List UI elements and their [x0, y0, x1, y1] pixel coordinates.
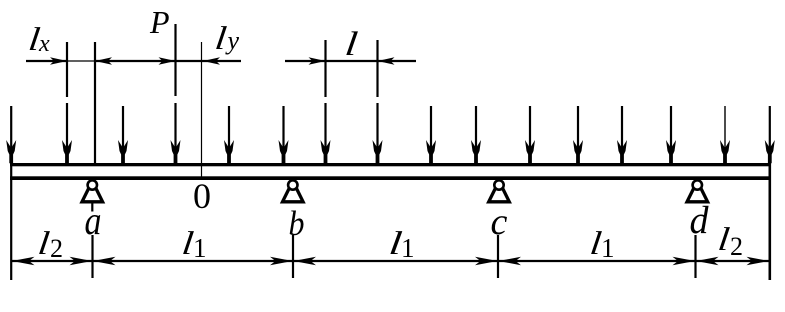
bottom tick d: [694, 235, 696, 278]
support c hinge circle: [494, 180, 503, 189]
load arrow 7: [324, 103, 326, 149]
beam left end extension line: [10, 163, 12, 280]
load arrow 3: [122, 106, 124, 149]
support a triangle: [82, 181, 103, 202]
svg-text:b: b: [289, 204, 305, 243]
load arrow 6: [282, 106, 284, 149]
load arrow 9: [430, 106, 432, 149]
load arrow 10: [475, 106, 477, 149]
dim line ly right segment with left-pointing arrow: [203, 60, 241, 62]
support a stem: [91, 203, 93, 211]
bottom tick c: [497, 235, 499, 278]
support b hinge circle: [288, 180, 297, 189]
load arrow 8: [376, 103, 378, 149]
l2-right arrowhead at tick d: [696, 257, 719, 265]
svg-text:1: 1: [193, 233, 207, 263]
svg-text:l: l: [343, 26, 360, 63]
beam top flange: [10, 163, 770, 166]
l1-ab arrowhead at tick b: [270, 257, 293, 265]
beam right end extension line: [768, 163, 771, 280]
section 0 axis (thin line): [201, 42, 203, 178]
svg-text:l: l: [213, 20, 229, 57]
l2-right arrowhead at beam right end: [747, 257, 770, 265]
load arrow 4: [174, 103, 176, 149]
l2-left arrowhead at tick a: [70, 257, 93, 265]
extension line of support a above beam: [94, 42, 96, 163]
bottom tick b: [292, 235, 294, 278]
dim line l (continuous through both ticks): [285, 60, 416, 62]
connecting line between P tick and 0 line: [176, 60, 204, 62]
tick l spacing right: [376, 40, 378, 97]
load arrow 12: [577, 106, 579, 149]
load line P: [174, 24, 176, 96]
svg-text:2: 2: [50, 234, 63, 263]
support d triangle: [687, 181, 708, 202]
bottom dimension line: [11, 260, 770, 262]
svg-text:0: 0: [193, 176, 211, 216]
l1-ab arrowhead at tick a: [93, 257, 116, 265]
load arrow 1: [10, 106, 12, 149]
l2-left arrowhead at beam left end: [12, 257, 35, 265]
svg-text:y: y: [225, 26, 240, 55]
support a hinge circle: [88, 180, 97, 189]
svg-text:P: P: [149, 4, 170, 40]
load arrow 5: [228, 106, 230, 149]
support b triangle: [283, 181, 304, 202]
svg-text:2: 2: [730, 232, 743, 261]
support c triangle: [489, 181, 510, 202]
l1-cd arrowhead at tick d: [673, 257, 696, 265]
dim segment between support-a line and P line, arrows outward: [95, 60, 176, 62]
load arrow 2: [66, 103, 68, 149]
load arrow 16: [769, 106, 771, 149]
svg-text:d: d: [690, 199, 709, 242]
svg-text:1: 1: [601, 233, 615, 263]
load arrow 14: [670, 106, 672, 149]
tick l spacing left: [324, 40, 326, 97]
l1-cd arrowhead at tick c: [499, 257, 522, 265]
l1-bc arrowhead at tick b: [294, 257, 317, 265]
support d hinge circle: [693, 180, 702, 189]
bottom tick a: [91, 235, 93, 278]
beam bottom flange: [10, 176, 770, 180]
thin connecting line between lx ticks: [67, 60, 95, 62]
dim line lx left segment with right-pointing arrow: [26, 60, 67, 62]
svg-text:1: 1: [401, 233, 415, 263]
svg-text:x: x: [38, 31, 50, 57]
load arrow 15: [724, 106, 726, 149]
load arrow 11: [529, 106, 531, 149]
l1-bc arrowhead at tick c: [475, 257, 498, 265]
load arrow 13: [621, 106, 623, 149]
tick of first load (lx dimension): [66, 42, 68, 97]
